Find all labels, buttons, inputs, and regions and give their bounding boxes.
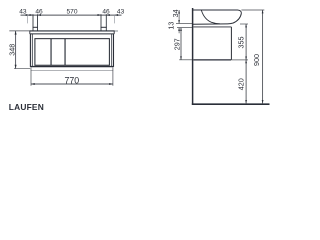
- svg-text:770: 770: [64, 76, 79, 86]
- basin rim top + corner: [193, 10, 242, 13]
- drawer dividers: [50, 39, 52, 66]
- cabinet inner wall lines: [31, 34, 33, 66]
- drawer front: [35, 39, 110, 66]
- basin inner bowl curve: [201, 10, 220, 23]
- top dim arrowheads: [26, 14, 118, 16]
- fixing tab left: [33, 26, 38, 28]
- svg-text:900: 900: [252, 54, 261, 66]
- fixing tab right: [101, 26, 107, 28]
- washbasin slab: [30, 30, 114, 32]
- top dimension line: [21, 14, 122, 16]
- svg-text:348: 348: [7, 44, 16, 56]
- faint bottom reveal line: [31, 69, 113, 71]
- 900 dimension: [241, 9, 264, 11]
- 770 dimension: [30, 68, 32, 86]
- top dim extension lines: [32, 14, 34, 31]
- svg-text:570: 570: [66, 8, 77, 15]
- svg-text:43: 43: [117, 8, 125, 15]
- 348 dimension: [9, 30, 30, 32]
- svg-text:13: 13: [167, 22, 176, 30]
- svg-text:34: 34: [171, 9, 180, 17]
- cabinet body: [29, 34, 31, 67]
- wall: [192, 8, 194, 105]
- top dim texts: [19, 8, 124, 15]
- floor: [192, 103, 270, 105]
- svg-text:46: 46: [102, 8, 110, 15]
- svg-text:46: 46: [35, 8, 43, 15]
- svg-text:420: 420: [237, 78, 246, 90]
- basin underside: [193, 23, 228, 25]
- 355 + 420 chain: [240, 23, 248, 25]
- svg-text:355: 355: [237, 37, 246, 49]
- 297 dimension: [179, 59, 192, 61]
- 34 dimension: [178, 10, 180, 24]
- svg-text:LAUFEN: LAUFEN: [9, 102, 44, 112]
- svg-text:43: 43: [19, 8, 27, 15]
- svg-text:297: 297: [172, 38, 181, 50]
- cabinet side: [193, 26, 231, 28]
- 13 dimension: [176, 23, 192, 25]
- basin front slope: [228, 13, 242, 24]
